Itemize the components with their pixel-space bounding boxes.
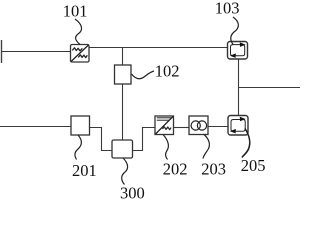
inverter 202 (DC/AC): [155, 116, 174, 135]
wire: left edge to 201: [0, 126, 71, 128]
block 300: [112, 140, 133, 158]
leader 202: [163, 135, 168, 160]
wire: 102 down to 300: [122, 84, 124, 140]
svg-text:205: 205: [241, 156, 266, 175]
leader 203: [203, 135, 209, 159]
leader 300: [122, 158, 128, 185]
switch unit 103: [228, 42, 248, 60]
svg-text:101: 101: [63, 2, 88, 21]
wire: 203 to 205: [208, 126, 228, 128]
transformer 203: [189, 116, 208, 135]
wire: left bus to 101: [2, 51, 71, 53]
switch unit 205: [228, 116, 248, 136]
svg-text:102: 102: [155, 61, 180, 80]
block 102: [115, 65, 132, 84]
converter 101 (AC/AC): [71, 45, 90, 63]
wire: 300 to 202: [133, 128, 156, 151]
leader 201: [75, 135, 81, 160]
wire: 201 to 300: [90, 128, 113, 151]
leader 103: [231, 17, 239, 45]
wire: 101 to 103: [89, 47, 228, 49]
wire: 202 to 203: [174, 127, 190, 129]
leader 101: [75, 19, 82, 45]
leader 205: [242, 129, 250, 158]
left busbar: [1, 40, 3, 63]
svg-text:103: 103: [215, 0, 240, 18]
leader 102: [132, 71, 155, 79]
block 201: [71, 116, 90, 135]
svg-text:202: 202: [163, 159, 188, 178]
wire: branch to right edge: [239, 87, 301, 89]
svg-text:300: 300: [120, 184, 145, 200]
svg-text:203: 203: [201, 159, 226, 178]
wire: 103 down to 205: [238, 59, 240, 116]
svg-text:201: 201: [72, 161, 97, 180]
wire: bus junction down to 102: [122, 48, 124, 66]
